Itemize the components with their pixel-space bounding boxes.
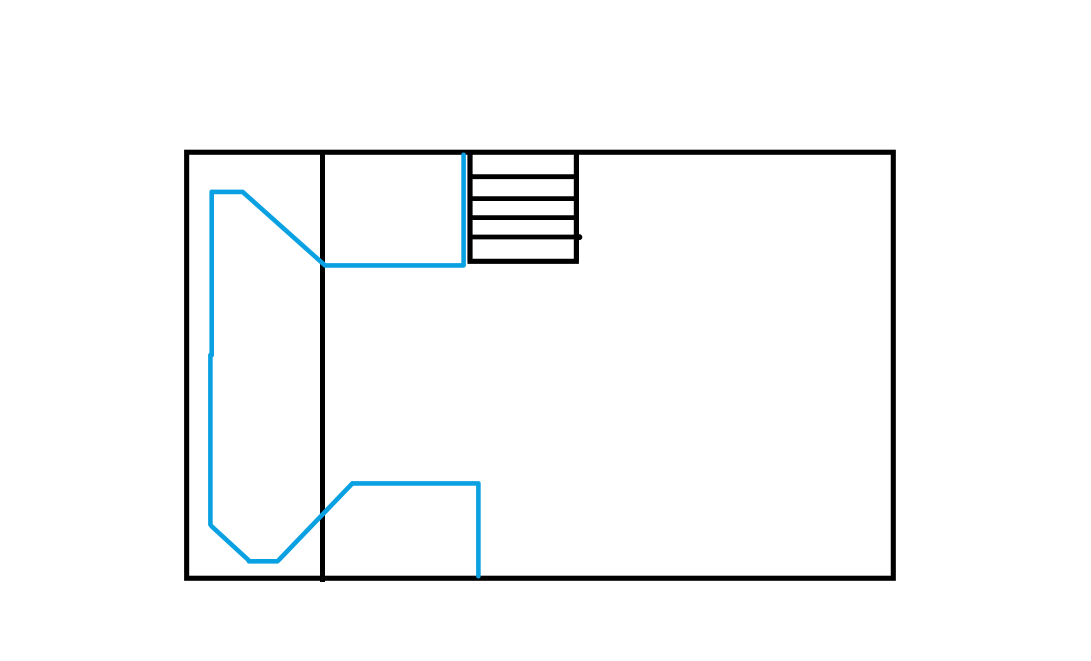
blue path: top shape (vertical, bottom horizontal, diagonal, top horizontal)	[212, 155, 464, 266]
stairs rung 4	[468, 235, 578, 240]
blue path: left vertical lower segment	[208, 355, 213, 525]
stairs rung 3	[468, 215, 578, 220]
stairs bottom bar	[468, 259, 579, 264]
stairs rung 1	[468, 174, 578, 179]
blue path: up diagonal	[279, 483, 353, 560]
stairs right rail	[574, 151, 579, 261]
interior wall vertical line	[320, 151, 325, 582]
stairs left rail	[467, 151, 472, 261]
stairs rung 2	[468, 196, 578, 201]
blue path: left vertical upper segment	[209, 192, 214, 355]
outer room rectangle	[187, 152, 894, 578]
blue path: bottom-right shape (horizontal and vertical tail)	[352, 483, 478, 576]
blue path: bottom flat segment	[249, 559, 278, 564]
blue path: lower-left down diagonal	[212, 526, 249, 560]
stairs rung 4 end dot	[576, 234, 582, 240]
